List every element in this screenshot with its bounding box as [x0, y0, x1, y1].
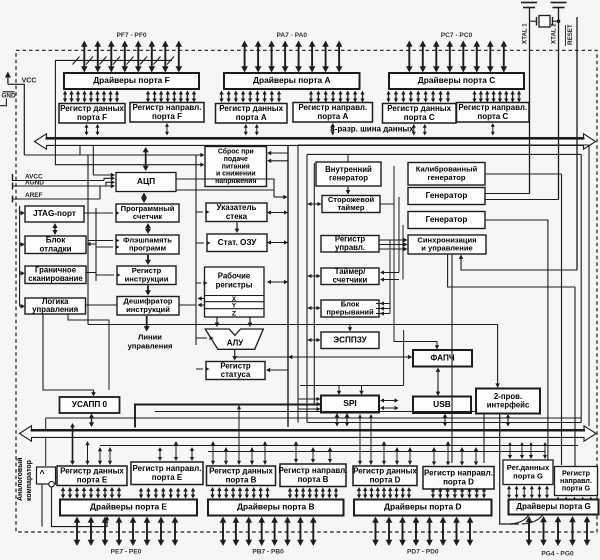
svg-text:Регистр направл.: Регистр направл. [424, 468, 493, 477]
X row left arrow [198, 296, 205, 300]
svg-text:RESET: RESET [567, 24, 574, 45]
svg-text:счетчики: счетчики [333, 276, 368, 285]
svg-text:PB7 - PB0: PB7 - PB0 [252, 549, 284, 556]
svg-text:SPI: SPI [343, 398, 357, 408]
svg-text:Регистр данных: Регистр данных [387, 104, 451, 113]
port B pin lines PB7 - PB0 [220, 517, 317, 547]
блок сброс при подаче питания [205, 147, 267, 187]
регистр данных порта B [207, 466, 276, 486]
JTAG right wire [84, 212, 96, 214]
блок АЛУ trapezoid [205, 329, 263, 349]
линии управления text [128, 333, 173, 351]
svg-text:PA7 - PA0: PA7 - PA0 [277, 32, 308, 39]
svg-text:Линии: Линии [138, 333, 162, 342]
блок генератор 1 [408, 188, 485, 205]
cpu block right side arrows [267, 210, 288, 284]
svg-text:таймер: таймер [337, 203, 364, 212]
port B register-bus arrows [211, 405, 332, 465]
драйверы порта G [509, 500, 599, 515]
intgen-watchdog arrow [346, 187, 351, 195]
драйверы порта D [354, 500, 492, 516]
svg-text:порта E: порта E [152, 473, 183, 482]
регистр данных порта A [216, 104, 288, 124]
svg-text:генератор: генератор [329, 173, 368, 182]
svg-text:Драйверы порта D: Драйверы порта D [384, 502, 462, 512]
svg-text:порта D: порта D [370, 475, 401, 484]
SPI bottom arrows [335, 413, 350, 427]
блок JTAG-порт [25, 206, 84, 222]
svg-text:порта A: порта A [236, 113, 267, 122]
port G pin lines PG4 - PG0 [526, 516, 591, 546]
comparator top wire [45, 418, 47, 466]
GND pin symbol [0, 92, 15, 106]
svg-text:порта A: порта A [317, 112, 348, 121]
long control wire to TWI [88, 324, 498, 326]
блок регистр управления [321, 235, 379, 253]
блок ЭСППЗУ [321, 332, 379, 349]
svg-text:порта B: порта B [226, 475, 257, 484]
блок логика управления [25, 297, 86, 314]
svg-text:Регистр направл.: Регистр направл. [279, 466, 348, 475]
port C driver-register arrows [386, 91, 521, 103]
блок внутренний генератор [316, 162, 381, 186]
svg-text:ФАПЧ: ФАПЧ [430, 353, 454, 362]
драйверы порта E [60, 500, 197, 516]
svg-text:Регистр данных: Регистр данных [60, 104, 124, 113]
ALU-status arrow [232, 350, 237, 361]
svg-text:AGND: AGND [25, 180, 44, 187]
svg-text:Драйверы порта F: Драйверы порта F [93, 75, 170, 85]
vertical rail x307 [306, 154, 308, 422]
timer right arrows [380, 197, 403, 282]
port F driver-register arrows [63, 91, 196, 103]
svg-text:питания: питания [222, 163, 250, 170]
svg-text:Регистр направл.: Регистр направл. [458, 103, 527, 112]
блок указатель стека [206, 203, 267, 222]
svg-text:PC7 - PC0: PC7 - PC0 [441, 32, 473, 39]
left rail 2 [95, 208, 97, 281]
svg-text:Блок: Блок [46, 235, 67, 244]
stack-SRAM arrow [235, 223, 240, 234]
svg-text:инструкций: инструкций [126, 305, 170, 314]
port E register-bus arrows [70, 423, 194, 465]
svg-text:АЛУ: АЛУ [227, 339, 244, 348]
блок стат. ОЗУ [207, 234, 267, 252]
left rail to JTAG blocks [19, 206, 21, 306]
ADC-PC arrow [141, 193, 147, 204]
interrupt left arrow [307, 306, 321, 310]
RESET label with overline [566, 24, 575, 46]
блок 2-проводный интерфейс [476, 389, 540, 414]
port A driver-register arrows [219, 91, 364, 103]
bus-ADC arrow [143, 147, 149, 171]
Y row left arrow [198, 303, 205, 307]
decoder right wire [179, 304, 196, 306]
блок программный счетчик [116, 204, 179, 222]
svg-text:Аналоговый: Аналоговый [16, 458, 24, 502]
svg-text:порта F: порта F [77, 113, 107, 122]
timer left arrow [307, 274, 321, 278]
svg-text:порта C: порта C [477, 112, 508, 121]
analog mux wire with taps over PF pins [55, 57, 174, 155]
port E pin lines PE7 - PE0 [74, 517, 179, 547]
svg-text:регистры: регистры [216, 281, 253, 290]
регистр данных порта C [383, 104, 457, 124]
wire y451 [208, 451, 545, 453]
svg-text:XTAL 1: XTAL 1 [522, 23, 529, 44]
TWI left drop wire to port D dir reg [483, 414, 485, 463]
PLL-USB arrow [436, 368, 441, 397]
svg-text:JTAG-порт: JTAG-порт [33, 209, 76, 218]
svg-text:порта C: порта C [404, 113, 435, 122]
регистр данных порта D [353, 466, 417, 486]
PLL top wire [394, 166, 439, 350]
calibrated gen wire down to port G dir reg [561, 174, 563, 465]
svg-text:Драйверы порта G: Драйверы порта G [516, 502, 590, 511]
блок прерываний [321, 299, 379, 317]
регистр данных порта E [57, 466, 127, 486]
boundary scan right wire [86, 273, 96, 282]
svg-text:и снижении: и снижении [216, 171, 256, 178]
svg-text:^: ^ [40, 469, 46, 479]
драйверы порта F [64, 73, 199, 89]
vertical rail x298 [297, 146, 299, 423]
eeprom top arrow [348, 325, 352, 332]
regs-ALU arrow 2 [248, 317, 253, 327]
блок генератор 2 [408, 212, 485, 229]
regs-ALU arrow 1 [215, 317, 220, 327]
svg-text:порта G: порта G [562, 483, 591, 492]
svg-text:PD7 - PD0: PD7 - PD0 [407, 549, 439, 556]
reset wire into sync bottom [459, 255, 577, 271]
port C pin lines PC7 - PC0 [406, 41, 507, 73]
logic to USART wire [43, 315, 96, 397]
регистр направл. порта A [293, 103, 373, 123]
блок USB [413, 397, 471, 414]
flash-IR arrow [145, 255, 151, 265]
блок граничное сканирование [25, 266, 86, 284]
драйверы порта A [224, 73, 360, 89]
watchdog left arrows [307, 202, 322, 206]
long wire x575 to port G [574, 287, 576, 466]
svg-text:порта D: порта D [443, 477, 474, 486]
debug block right-edge arrows [87, 242, 97, 246]
svg-text:сканирование: сканирование [28, 274, 83, 283]
sync bottom wire 2 [448, 254, 575, 287]
ctrl reg right wires [379, 239, 390, 241]
XTAL1 line [529, 8, 531, 194]
блок отладки [25, 235, 86, 253]
блок АЦП [116, 173, 176, 192]
PC-flash arrow [145, 223, 151, 234]
USART-bus2 arrow [89, 414, 94, 428]
регистр данных порта F [59, 104, 125, 124]
svg-text:Драйверы порта C: Драйверы порта C [418, 75, 496, 85]
svg-text:Регистр данных: Регистр данных [209, 466, 273, 475]
svg-text:USB: USB [433, 399, 451, 409]
svg-text:XTAL 2: XTAL 2 [551, 23, 558, 44]
svg-text:порта F: порта F [152, 112, 182, 121]
arrow into JTAG block [20, 211, 25, 216]
блок сторожевой таймер [322, 195, 380, 213]
svg-text:Регистр данных: Регистр данных [219, 104, 283, 113]
регистр направл. порта G [555, 467, 598, 496]
svg-text:VCC: VCC [22, 78, 37, 85]
регистр направл. порта E [131, 462, 203, 485]
analog comparator label [16, 458, 33, 502]
svg-text:генератор: генератор [428, 173, 466, 182]
блок флэшпамять программ [116, 235, 179, 254]
IR-decoder arrow [145, 286, 151, 296]
8-bit data bus (upper) [35, 134, 596, 149]
svg-text:PG4 - PG0: PG4 - PG0 [541, 551, 574, 558]
interrupt right arrows [376, 250, 390, 316]
svg-text:Z: Z [232, 310, 236, 317]
драйверы порта C [389, 73, 524, 89]
port G register-bus arrows [508, 442, 547, 459]
comparator input wire [41, 484, 43, 527]
svg-text:статуса: статуса [221, 370, 251, 379]
port F pin lines PF7 - PF0 [81, 41, 182, 73]
wire y445 [100, 445, 578, 447]
wires into reset block right [267, 151, 288, 163]
wire y411 [155, 411, 476, 413]
svg-text:порта G: порта G [513, 471, 543, 480]
AGND pin line [13, 180, 116, 189]
блок синхронизация и управление [408, 235, 486, 254]
блок рабочие регистры with X Y Z rows [205, 267, 265, 317]
svg-text:Регистр данных: Регистр данных [353, 466, 417, 475]
svg-text:GND: GND [1, 93, 16, 100]
svg-text:АЦП: АЦП [137, 176, 155, 186]
svg-text:Сброс при: Сброс при [218, 148, 254, 156]
vertical rail x314 [313, 163, 315, 404]
8-bit data bus (lower) [20, 426, 597, 441]
SPI top feed wires [300, 330, 404, 395]
блок регистр инструкции [117, 266, 176, 285]
status register right arrow [266, 368, 288, 372]
SPI left arrows [298, 397, 321, 411]
left CPU rail [87, 155, 89, 325]
watchdog right connector [380, 203, 394, 205]
svg-text:Генератор: Генератор [426, 215, 468, 224]
svg-text:Указатель: Указатель [217, 203, 257, 212]
JTAG to debug arrow [52, 223, 57, 235]
svg-text:Драйверы порта A: Драйверы порта A [253, 75, 331, 85]
SPI right arrows [380, 398, 399, 410]
svg-text:ЭСППЗУ: ЭСППЗУ [333, 335, 367, 344]
XTAL2 line [558, 8, 560, 200]
svg-text:Регистр направл.: Регистр направл. [133, 103, 202, 112]
блок калиброванный генератор [408, 163, 485, 186]
svg-text:Генератор: Генератор [426, 191, 468, 200]
control logic bottom hook wire [68, 315, 109, 391]
port D pin lines PD7 - PD0 [372, 517, 473, 547]
svg-text:компаратор: компаратор [26, 460, 33, 501]
port G register-driver arrows [507, 486, 593, 504]
port C register-bus arrows [412, 123, 495, 136]
блок ФАПЧ [413, 350, 472, 367]
USB-bus2 arrow [443, 414, 448, 427]
svg-text:Регистр данных: Регистр данных [60, 466, 124, 475]
ALU junction to PLL long arrow [235, 355, 413, 360]
generator-XTAL1 wire [485, 193, 530, 195]
регистр направл. порта F [130, 103, 204, 123]
bus drop wire x80 [79, 146, 81, 155]
svg-text:AREF: AREF [25, 192, 42, 199]
svg-text:Регистр направл.: Регистр направл. [298, 103, 367, 112]
svg-text:порта B: порта B [298, 475, 329, 484]
center-left rail [195, 155, 197, 345]
svg-text:отладки: отладки [39, 244, 71, 253]
svg-text:прерываний: прерываний [326, 308, 374, 317]
svg-text:Регистр направл.: Регистр направл. [133, 464, 202, 473]
svg-text:подаче: подаче [224, 156, 248, 163]
svg-text:управления: управления [128, 342, 173, 351]
svg-text:PF7 - PF0: PF7 - PF0 [116, 32, 146, 39]
port A pin lines PA7 - PA0 [241, 41, 342, 73]
crystal [530, 16, 561, 28]
port D register-driver arrows [357, 487, 486, 499]
драйверы порта B [208, 500, 344, 516]
регистр направл. порта B [279, 464, 348, 487]
svg-text:программ: программ [129, 244, 167, 253]
internal gen top wire [347, 154, 349, 161]
svg-text:управления: управления [32, 305, 78, 314]
comparator output wire to port E drivers [52, 487, 110, 527]
svg-text:Драйверы порта E: Драйверы порта E [90, 502, 167, 512]
XTAL1 capacitor [521, 3, 537, 8]
calibrated gen right wire [485, 173, 562, 175]
control logic to decoder wire [86, 304, 118, 306]
регистр направл. порта C [457, 103, 530, 123]
ADC top-left feed arrow [93, 173, 115, 177]
peripheral box top [298, 144, 589, 146]
svg-text:УСАПП 0: УСАПП 0 [72, 400, 108, 409]
svg-text:Драйверы порта B: Драйверы порта B [237, 502, 315, 512]
arrow into logic block [20, 304, 25, 309]
блок УСАПП 0 [60, 397, 120, 413]
main vertical rail x288 [287, 146, 289, 427]
блок дешифратор инструкций [117, 297, 179, 316]
port F register-bus arrows [85, 123, 170, 136]
TWI wire down to port G drivers with curved joins [500, 414, 544, 525]
svg-text:управл.: управл. [335, 243, 365, 252]
sync down wire x452 [451, 254, 453, 463]
generator2 wire right down to port G [485, 220, 548, 460]
generator-XTAL2 wire [485, 199, 559, 201]
svg-text:8-разр. шина данных: 8-разр. шина данных [330, 125, 414, 134]
cpu block side arrows [88, 210, 214, 371]
VCC wire into reset block left 1 [24, 153, 204, 157]
svg-text:Стат. ОЗУ: Стат. ОЗУ [218, 238, 258, 247]
mux wire into reset block left 2 [55, 155, 204, 167]
регистр направл. порта D [423, 467, 494, 490]
svg-text:интерфейс: интерфейс [487, 400, 530, 409]
VCC pin symbol [5, 72, 24, 156]
inner box top [307, 153, 581, 155]
svg-text:PE7 - PE0: PE7 - PE0 [111, 549, 142, 556]
svg-text:Рабочие: Рабочие [218, 272, 251, 281]
port E register-driver arrows [61, 487, 195, 499]
inner box right [580, 154, 582, 422]
TWI-bus2 arrow [506, 414, 511, 427]
bus drop wire x93 [92, 146, 94, 175]
wire into right rail y197 [274, 195, 288, 199]
RESET line [576, 17, 578, 270]
port B register-driver arrows [210, 487, 338, 499]
svg-text:стека: стека [226, 212, 248, 221]
ADC right wire 2 [176, 189, 274, 191]
sync block left arrows [390, 238, 408, 251]
arrow into boundary block [20, 271, 25, 276]
блок таймер-счетчики [321, 267, 379, 285]
thick wire SPI-bus2 [135, 405, 321, 428]
ADC right wire [176, 179, 274, 197]
peripheral box right [588, 145, 590, 426]
arrow into debug block [20, 242, 25, 247]
регистр данных порта G [503, 460, 553, 485]
XTAL2 capacitor [551, 3, 567, 8]
блок SPI [321, 396, 379, 413]
svg-text:и управление: и управление [421, 244, 472, 253]
eeprom left arrow [307, 338, 321, 342]
AVCC pin line [13, 174, 116, 181]
svg-text:счетчик: счетчик [133, 212, 162, 221]
AREF pin line [13, 184, 116, 203]
decoder-control lines arrow [144, 316, 150, 332]
svg-text:порта E: порта E [77, 475, 108, 484]
port D register-bus arrows [358, 414, 478, 466]
svg-text:инструкции: инструкции [125, 274, 169, 283]
блок регистр статуса [206, 361, 265, 379]
long wire y418 [46, 417, 581, 419]
port A register-bus arrows [244, 123, 335, 136]
analog comparator symbol [37, 467, 56, 487]
inner box bottom [307, 422, 581, 424]
